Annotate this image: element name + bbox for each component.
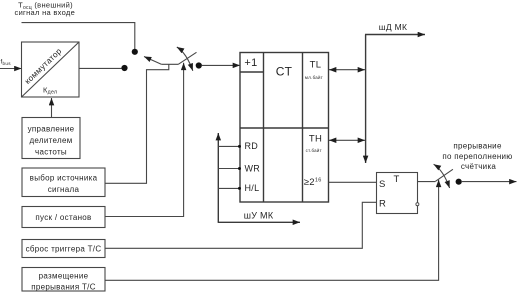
svg-text:CT: CT [276, 64, 293, 78]
switch S1 selector arm [161, 63, 178, 65]
wire H/L stub [218, 187, 239, 189]
node Tosc contact dot [132, 49, 138, 55]
node H/L junction dot [238, 187, 241, 190]
svg-text:прерывание: прерывание [453, 142, 502, 151]
box source select [22, 168, 105, 197]
svg-text:S: S [379, 179, 386, 190]
svg-text:T: T [394, 174, 400, 185]
svg-text:+1: +1 [244, 57, 257, 69]
svg-text:TL: TL [310, 59, 322, 70]
svg-text:сброс триггера Т/С: сброс триггера Т/С [26, 244, 102, 253]
node S2 output dot [196, 62, 202, 68]
trigger inverted output circle [416, 203, 419, 206]
wire RD stub [218, 145, 239, 147]
counter CT block [240, 53, 329, 203]
wire to +1 input [202, 64, 240, 66]
switch S3 swing arc [434, 164, 450, 188]
svg-text:H/L: H/L [245, 183, 260, 193]
svg-text:по переполнению: по переполнению [442, 152, 512, 161]
wire divider control arrow [51, 98, 53, 118]
svg-text:WR: WR [245, 164, 261, 174]
wire interrupt output [462, 181, 517, 183]
bus shU MK vertical [217, 133, 219, 222]
svg-text:≥216: ≥216 [304, 177, 322, 188]
svg-text:прерывания Т/С: прерывания Т/С [31, 282, 96, 291]
svg-text:делителем: делителем [29, 136, 72, 145]
svg-text:Кдел: Кдел [43, 86, 57, 96]
box trigger reset [22, 240, 105, 258]
box divider control [22, 118, 80, 159]
svg-text:выбор источника: выбор источника [30, 174, 98, 183]
svg-text:управление: управление [28, 124, 75, 133]
svg-text:размещение: размещение [39, 271, 89, 280]
bus shD MK horizontal [365, 34, 425, 36]
wire reset to R [105, 202, 377, 248]
wire trigger output [418, 181, 436, 183]
node source contact dot [121, 65, 127, 71]
switch S2 start/stop arm [179, 52, 197, 64]
svg-text:сигнала: сигнала [48, 185, 80, 194]
bus shU MK horizontal [218, 221, 300, 223]
switch S3 interrupt-enable arm [435, 169, 453, 181]
svg-text:R: R [379, 198, 386, 209]
wire TL data double arrow [329, 69, 365, 71]
svg-text:сигнал на входе: сигнал на входе [15, 8, 76, 17]
wire WR stub [218, 168, 239, 170]
svg-text:шД МК: шД МК [379, 22, 407, 32]
wire commutator output [79, 67, 122, 69]
trigger T flip-flop [377, 173, 418, 214]
switch S2 swing arc [177, 47, 193, 71]
node RD junction dot [238, 145, 241, 148]
svg-text:счётчика: счётчика [461, 162, 497, 171]
svg-text:пуск / останов: пуск / останов [35, 213, 91, 222]
box start/stop [22, 207, 105, 228]
box interrupt placement [22, 268, 105, 292]
svg-text:мл.байт: мл.байт [305, 75, 323, 80]
wire Tosc to switch [22, 23, 135, 49]
svg-text:коммутатор: коммутатор [23, 46, 64, 86]
svg-text:RD: RD [245, 141, 259, 151]
svg-text:частоты: частоты [35, 147, 67, 156]
svg-text:TH: TH [309, 133, 322, 144]
node S3 output dot [456, 179, 462, 185]
wire start/stop control [105, 63, 184, 217]
node WR junction dot [238, 167, 241, 170]
svg-text:шУ МК: шУ МК [244, 210, 274, 220]
wire interrupt-placement control [105, 180, 439, 281]
wire TH data double arrow [329, 139, 365, 141]
bus shD MK vertical [365, 35, 367, 164]
fbus input arrow [0, 68, 22, 70]
svg-text:fbus: fbus [1, 59, 12, 66]
svg-text:ст.байт: ст.байт [306, 148, 322, 153]
wire overflow to S [329, 181, 377, 183]
commutator box [22, 42, 80, 97]
wire select-source control [105, 64, 169, 183]
